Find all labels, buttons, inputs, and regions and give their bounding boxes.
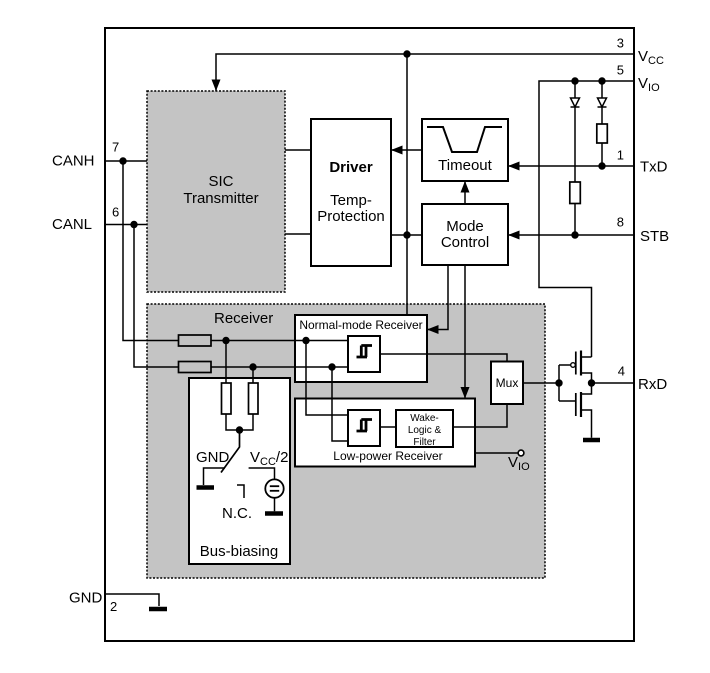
comparator U2 (normal-mode hysteresis) [348, 336, 380, 372]
wire CANL pin 6 [105, 224, 147, 226]
svg-text:GND: GND [69, 590, 103, 607]
node VCC junction [403, 50, 410, 57]
svg-text:Logic &: Logic & [408, 425, 442, 436]
wire line1 to low-power comparator [306, 341, 348, 416]
node line1 bus-bias junction [222, 337, 229, 344]
svg-text:1: 1 [617, 148, 624, 163]
resistor R2 (STB pull) [570, 182, 581, 235]
node line2 low-power junction [328, 363, 335, 370]
wire Wake-Logic output to Mux [453, 404, 507, 427]
Receiver block (gray region) [147, 304, 545, 578]
Timeout block [422, 119, 508, 181]
node CANH junction [119, 157, 126, 164]
svg-text:RxD: RxD [638, 376, 667, 393]
svg-text:Timeout: Timeout [438, 157, 492, 174]
Wake-Logic & Filter block [396, 410, 453, 448]
resistor R4 (CANL receiver input) [179, 362, 212, 373]
wire VCC internal vertical [406, 54, 408, 315]
svg-text:Low-power Receiver: Low-power Receiver [333, 449, 442, 463]
node on VCC vertical [403, 231, 410, 238]
arrow into Timeout bottom [461, 181, 470, 193]
terminal VIO (open circle) [518, 450, 524, 456]
svg-text:3: 3 [617, 36, 624, 51]
switch SW1 blade [221, 431, 240, 473]
arrow into Low-power Receiver top [461, 387, 470, 399]
wire SIC to Driver top [285, 149, 311, 151]
svg-text:Control: Control [441, 234, 489, 251]
wire Low-power Receiver to VIO terminal [475, 452, 518, 454]
node RxD output junction [588, 379, 595, 386]
wire TxD pin 1 [508, 165, 634, 167]
svg-text:Mode: Mode [446, 218, 484, 235]
wire Mux output to gate node [523, 382, 559, 384]
svg-text:STB: STB [640, 228, 669, 245]
svg-text:Driver: Driver [329, 159, 373, 176]
svg-text:Bus-biasing: Bus-biasing [200, 543, 278, 560]
svg-text:CANH: CANH [52, 153, 95, 170]
svg-text:Mux: Mux [496, 376, 519, 390]
arrow into Normal-mode Receiver right [427, 325, 439, 334]
arrow into SIC top [212, 80, 221, 92]
ground bar (bus-bias) [197, 485, 215, 490]
ground bar (transistor) [583, 438, 600, 443]
resistor R5 (bus-bias left) [222, 383, 232, 414]
wire line2 to low-power comparator [332, 367, 348, 441]
resistor R3 (CANH receiver input) [179, 335, 212, 346]
wire Mode Control to Normal-mode Receiver [427, 265, 448, 330]
wire CANL to receiver line2 [134, 225, 179, 368]
wire RxD pin 4 [592, 382, 635, 384]
wire line2 to comparator [211, 366, 348, 368]
node gate junction [555, 379, 562, 386]
node VIO junction 2 [598, 77, 605, 84]
svg-text:Filter: Filter [413, 437, 436, 448]
wire line1 to comparator [211, 340, 348, 342]
svg-text:Receiver: Receiver [214, 310, 273, 327]
node line1 low-power junction [302, 337, 309, 344]
svg-text:VCC: VCC [638, 48, 664, 67]
node bus-bias pole [236, 426, 243, 433]
svg-text:VIO: VIO [638, 75, 660, 94]
svg-text:Normal-mode Receiver: Normal-mode Receiver [299, 318, 422, 332]
arrow into Mode Control right [508, 231, 520, 240]
wire Mode Control to Timeout [464, 181, 466, 204]
switch GND contact and ground [204, 468, 226, 485]
resistor R1 (TxD pull) [597, 124, 608, 166]
node STB junction [571, 231, 578, 238]
node VIO junction 1 [571, 77, 578, 84]
arrow into Driver right [391, 146, 403, 155]
wire CANH pin 7 [105, 160, 147, 162]
svg-text:Temp-: Temp- [330, 192, 372, 209]
wire VIO pin 5 [539, 81, 634, 357]
IC boundary [105, 28, 634, 641]
svg-text:Wake-: Wake- [410, 413, 439, 424]
arrow into Timeout right [508, 162, 520, 171]
wire SIC to Driver bottom [285, 233, 311, 235]
diode D2 [598, 81, 607, 124]
Low-power Receiver block [295, 399, 475, 467]
wire Driver to Mode Control [391, 234, 422, 236]
wire Timeout to Driver [391, 149, 422, 151]
wire VCC pin 3 [216, 54, 634, 91]
ground bar (pin 2) [149, 607, 167, 612]
switch N.C. contact [237, 485, 244, 498]
ground bar (voltage source) [265, 511, 283, 516]
svg-text:N.C.: N.C. [222, 505, 252, 522]
diode D1 [571, 81, 580, 182]
wire resistor join [226, 414, 253, 430]
svg-text:TxD: TxD [640, 159, 668, 176]
wire bus-bias right resistor feed [252, 367, 254, 383]
wire STB pin 8 [508, 234, 634, 236]
svg-text:GND: GND [196, 449, 230, 466]
svg-text:Protection: Protection [317, 208, 385, 225]
transistor Q2 (NMOS) [559, 383, 592, 438]
wire bus-bias left resistor feed [225, 341, 227, 384]
svg-text:7: 7 [112, 140, 119, 155]
SIC Transmitter block [147, 91, 285, 292]
svg-text:8: 8 [617, 215, 624, 230]
voltage source B1 [265, 479, 283, 497]
wire GND pin 2 [105, 594, 159, 606]
svg-text:Transmitter: Transmitter [183, 190, 258, 207]
comparator U3 (low-power hysteresis) [348, 410, 380, 446]
Mux block [491, 362, 523, 405]
Mode Control block [422, 204, 508, 265]
wire comparator U3 output to Wake-Logic [380, 426, 396, 428]
node TxD junction [598, 162, 605, 169]
resistor R6 (bus-bias right) [249, 383, 259, 414]
node CANL junction [130, 221, 137, 228]
wire Mode Control to Low-power Receiver [464, 265, 466, 399]
svg-text:6: 6 [112, 205, 119, 220]
wire comparator U2 output to Mux [380, 354, 507, 362]
transistor Q1 (PMOS) [559, 351, 592, 402]
node line2 bus-bias junction [249, 363, 256, 370]
wire CANH to receiver line1 [123, 161, 179, 341]
svg-text:4: 4 [618, 364, 625, 379]
switch VCC/2 contact [249, 468, 275, 480]
Bus-biasing block [189, 378, 290, 564]
svg-text:SIC: SIC [208, 173, 233, 190]
svg-text:CANL: CANL [52, 216, 92, 233]
svg-text:5: 5 [617, 63, 624, 78]
svg-text:2: 2 [110, 599, 117, 614]
Normal-mode Receiver block [295, 315, 427, 382]
Driver block [311, 119, 391, 266]
